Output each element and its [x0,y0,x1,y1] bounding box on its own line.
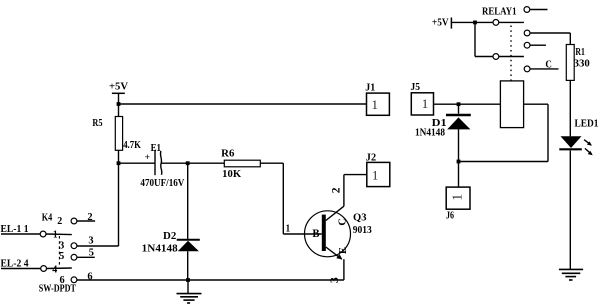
wire J2 to collector [344,175,367,207]
wire D2 top [187,163,189,239]
node relay +5V junction [473,21,477,25]
wire R6 to corner [260,162,283,164]
svg-text:4: 4 [52,264,57,275]
wire emitter down [343,259,345,280]
svg-text:6: 6 [60,275,65,286]
node D1 top junction [457,102,461,106]
svg-text:1: 1 [449,194,464,201]
svg-text:LED1: LED1 [575,119,599,130]
svg-text:1: 1 [422,97,428,111]
svg-text:K4: K4 [42,212,53,223]
svg-text:3: 3 [59,240,64,251]
wire corner down to base [282,163,284,234]
svg-text:SW-DPDT: SW-DPDT [39,284,76,295]
wire D1 to J6 [458,129,460,187]
wire pin3 to riser [77,245,119,247]
svg-text:330: 330 [574,58,590,69]
svg-text:5: 5 [89,248,94,259]
svg-text:Q3: Q3 [353,212,367,223]
svg-text:1N4148: 1N4148 [142,244,178,255]
svg-text:+: + [145,153,150,163]
node D1 bottom junction [457,160,461,164]
switch K4 SW-DPDT [40,218,77,283]
wire mid node to E1 [119,162,156,164]
resistor R5 [115,117,122,151]
wire +5V down to lower pole [474,22,476,56]
svg-text:4.7K: 4.7K [123,140,141,151]
relay coil RELAY1 [500,81,523,128]
connector J2 [367,162,390,186]
node VCC junction [117,102,121,106]
svg-text:E: E [338,247,349,254]
capacitor E1 [155,150,162,175]
diode D1 [446,104,471,129]
power +5V (left) [112,93,125,104]
svg-text:1: 1 [372,98,378,112]
wire coil return [459,104,549,161]
svg-text:1: 1 [286,223,291,234]
ground (left) [177,280,202,303]
svg-text:1: 1 [53,229,58,240]
wire +5V to J1 [119,103,367,105]
wire base [283,233,322,235]
svg-text:+5V: +5V [109,82,129,93]
transistor Q3 [305,206,351,259]
connector J1 [367,93,390,115]
connector J5 [411,93,433,115]
wire +5V down to R5 [118,104,120,117]
wire bottom rail [77,279,344,281]
wire E1 to R6 [161,162,224,164]
wire NO contact to R1 [530,33,570,45]
wire J5 to relay coil [434,103,501,105]
resistor R6 [224,160,260,167]
svg-text:R1: R1 [575,47,585,58]
power +5V (relay) [451,18,493,29]
svg-text:R6: R6 [221,149,234,160]
node ground junction [186,278,190,282]
svg-text:10K: 10K [222,169,241,180]
wire D2 bottom [187,251,189,280]
connector J6 [446,187,470,209]
svg-text:2: 2 [331,187,343,193]
node D2 top junction [186,161,190,165]
wire R5 to mid node [118,150,120,163]
svg-text:6: 6 [87,272,92,283]
svg-text:+5V: +5V [432,18,449,29]
svg-text:J2: J2 [366,153,376,164]
svg-text:470UF/16V: 470UF/16V [140,178,185,189]
wire EL-2 [1,268,41,270]
wire LED1 to ground [569,151,571,270]
svg-text:J6: J6 [446,211,454,222]
diode D2 [177,240,200,252]
wire pin2 stub [77,220,95,222]
wire EL-1 [1,233,40,235]
svg-text:2: 2 [87,212,92,223]
svg-text:C: C [338,218,349,226]
wire pin5 stub [77,256,95,258]
svg-text:J5: J5 [411,82,421,93]
svg-text:E1: E1 [151,143,161,154]
svg-text:3: 3 [88,235,93,246]
svg-text:9013: 9013 [353,225,372,236]
relay RELAY1 contacts [493,7,559,81]
LED LED1 [559,136,592,155]
svg-text:D2: D2 [163,231,176,242]
wire riser pin3 to mid node [118,163,120,246]
svg-text:B: B [312,226,319,240]
wire to lower pole contact [475,56,493,58]
ground (right) [559,269,583,280]
svg-text:2: 2 [57,216,62,227]
svg-text:5: 5 [59,251,64,262]
svg-text:1: 1 [372,169,378,183]
svg-text:1N4148: 1N4148 [415,127,445,138]
resistor R1 [566,45,574,81]
svg-text:C: C [545,60,552,71]
node mid junction [117,161,121,165]
svg-text:J1: J1 [365,82,375,93]
svg-text:R5: R5 [92,118,102,129]
wire R1 to LED1 [569,80,571,136]
svg-text:RELAY1: RELAY1 [482,6,517,17]
